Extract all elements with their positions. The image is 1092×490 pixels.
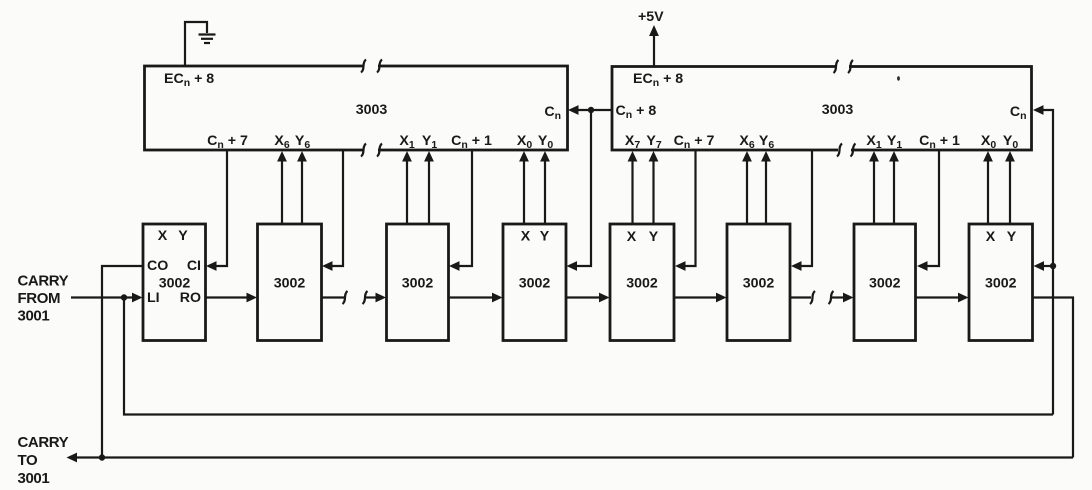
svg-text:RO: RO bbox=[180, 290, 201, 306]
wire RO into slice #3 bbox=[366, 293, 387, 303]
svg-text:CI: CI bbox=[187, 258, 201, 274]
wire Cn+1 (left 3003) to slice #3 CI bbox=[449, 150, 472, 271]
IC 3002 CPE slice #8 (rightmost) bbox=[969, 224, 1033, 341]
wire Cn+7 (left 3003) to slice #1 CI bbox=[206, 150, 227, 271]
wire Cn+7 (right 3003) to slice #5 CI bbox=[675, 150, 696, 271]
svg-text:3001: 3001 bbox=[18, 308, 50, 325]
wire Cn+6 (left 3003, unlabeled) to slice #2 CI bbox=[322, 150, 343, 271]
IC 3002 CPE slice #3 bbox=[387, 224, 449, 341]
wire Y0 up to left 3003 bbox=[540, 151, 550, 224]
wire X1 up to left 3003 bbox=[402, 151, 412, 224]
IC 3002 CPE slice #5 bbox=[610, 224, 674, 341]
wire RO into slice #7 bbox=[831, 293, 854, 303]
svg-text:3002: 3002 bbox=[743, 276, 775, 292]
wire Y7 up to right 3003 bbox=[649, 151, 659, 224]
svg-text:X: X bbox=[521, 229, 531, 245]
svg-text:Cn + 1: Cn + 1 bbox=[451, 133, 492, 151]
svg-text:3002: 3002 bbox=[626, 276, 658, 292]
svg-text:3002: 3002 bbox=[519, 276, 551, 292]
wire Cn+6 (right 3003, unlabeled) to slice #6 CI bbox=[791, 150, 812, 271]
wire X6 up to right 3003 bbox=[742, 151, 752, 224]
wire CARRY FROM 3001 into slice #1 LI bbox=[71, 293, 143, 303]
svg-text:LI: LI bbox=[147, 290, 160, 306]
IC 3002 CPE slice #4 bbox=[503, 224, 566, 341]
wire X7 up to right 3003 bbox=[628, 151, 638, 224]
IC 3002 CPE slice #6 bbox=[727, 224, 790, 341]
wire RO slice #7 to slice #8 bbox=[916, 293, 969, 303]
junction at slice #8 CI branch bbox=[1050, 263, 1056, 269]
node CARRY TO 3001 label bbox=[18, 434, 69, 487]
svg-text:FROM: FROM bbox=[18, 290, 61, 307]
svg-text:X: X bbox=[627, 229, 637, 245]
svg-text:Cn + 7: Cn + 7 bbox=[207, 133, 248, 151]
wire slice #1 CO down to carry-out line bbox=[102, 266, 143, 458]
svg-text:CARRY: CARRY bbox=[18, 434, 69, 451]
break marks on left 3003 bottom edge bbox=[361, 144, 382, 157]
wire Cn+1 (right 3003) to slice #7 CI bbox=[917, 150, 939, 271]
junction at carry-in branch bbox=[121, 294, 127, 300]
wire CARRY TO 3001 (bottom return line) bbox=[67, 453, 1074, 463]
node CARRY FROM 3001 label bbox=[18, 273, 69, 325]
IC 3002 CPE slice #7 bbox=[854, 224, 916, 341]
wire X6 up to left 3003 bbox=[277, 151, 287, 224]
svg-text:3001: 3001 bbox=[18, 470, 50, 487]
break marks on RO wire between slice #6 and #7 bbox=[810, 291, 834, 304]
svg-text:3002: 3002 bbox=[869, 276, 901, 292]
junction CO to carry-out line bbox=[99, 454, 105, 460]
wire Cn+8 from right 3003 to left 3003 Cn input bbox=[568, 105, 612, 115]
wire X0 up to right 3003 bbox=[983, 151, 993, 224]
wire RO slice #1 to slice #2 bbox=[206, 293, 258, 303]
svg-text:Y: Y bbox=[649, 229, 659, 245]
junction on Cn+8 wire bbox=[588, 107, 594, 113]
break marks on right 3003 bottom edge bbox=[837, 144, 856, 157]
wire carry-in branch down and across to the right bbox=[124, 298, 1053, 415]
svg-text:TO: TO bbox=[18, 452, 38, 469]
svg-text:Cn + 8: Cn + 8 bbox=[616, 103, 657, 121]
break marks on RO wire between slice #2 and #3 bbox=[343, 291, 368, 304]
IC 3003 carry look-ahead (left) bbox=[145, 62, 568, 154]
power +5V bbox=[638, 9, 664, 67]
wire Y1 up to left 3003 bbox=[424, 151, 434, 224]
stray ink mark bbox=[897, 76, 900, 80]
wire Y0 up to right 3003 bbox=[1005, 151, 1015, 224]
svg-text:CO: CO bbox=[147, 258, 168, 274]
IC 3003 carry look-ahead (right) bbox=[612, 62, 1032, 154]
wire RO slice #3 to slice #4 bbox=[449, 293, 503, 303]
wire Y6 up to left 3003 bbox=[297, 151, 307, 224]
svg-text:Y: Y bbox=[1007, 229, 1017, 245]
svg-text:3002: 3002 bbox=[985, 276, 1017, 292]
svg-text:X: X bbox=[986, 229, 996, 245]
IC 3002 CPE slice #2 bbox=[258, 224, 322, 341]
svg-text:3003: 3003 bbox=[822, 102, 854, 118]
break marks on left 3003 top edge bbox=[361, 60, 382, 73]
break marks on right 3003 top edge bbox=[834, 60, 854, 73]
wire RO slice #2 toward break bbox=[322, 296, 345, 298]
svg-text:3003: 3003 bbox=[356, 102, 388, 118]
wire slice #8 RO to carry-out line bbox=[1033, 298, 1074, 458]
wire RO slice #6 toward break bbox=[790, 296, 811, 298]
wire Y6 up to right 3003 bbox=[761, 151, 771, 224]
svg-text:Y: Y bbox=[178, 228, 188, 244]
wire carry-in rising to slice #8 CI and right 3003 Cn bbox=[1033, 105, 1053, 414]
svg-text:3002: 3002 bbox=[274, 276, 306, 292]
svg-text:+5V: +5V bbox=[638, 9, 664, 25]
svg-text:CARRY: CARRY bbox=[18, 273, 69, 290]
svg-text:3002: 3002 bbox=[402, 276, 434, 292]
wire Y1 up to right 3003 bbox=[889, 151, 899, 224]
svg-text:X: X bbox=[158, 228, 168, 244]
svg-text:Cn + 7: Cn + 7 bbox=[674, 133, 715, 151]
ground bbox=[185, 22, 216, 66]
wire Cn+8 branch down to slice #4 CI bbox=[567, 110, 592, 271]
wire branch into slice #8 CI bbox=[1034, 261, 1054, 271]
wire X1 up to right 3003 bbox=[869, 151, 879, 224]
wire RO slice #4 to slice #5 bbox=[566, 293, 610, 303]
svg-text:Y: Y bbox=[540, 229, 550, 245]
IC 3002 CPE slice #1 (leftmost) bbox=[143, 224, 206, 341]
wire X0 up to left 3003 bbox=[519, 151, 529, 224]
svg-text:Cn + 1: Cn + 1 bbox=[919, 133, 960, 151]
wire RO slice #5 to slice #6 bbox=[674, 293, 727, 303]
